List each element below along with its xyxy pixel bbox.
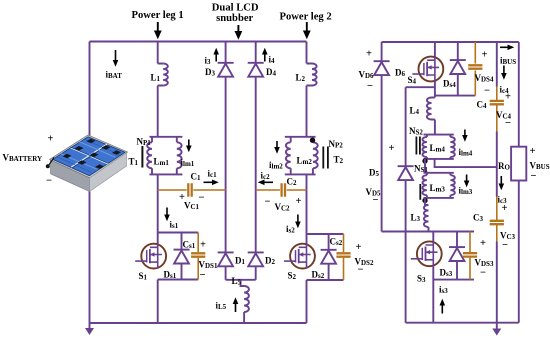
wire S3 cell top rail [382,231,474,233]
winding Lm3 right coil [449,173,451,198]
svg-text:−: − [531,171,537,182]
svg-text:Ds2: Ds2 [312,270,325,281]
transformer T1 bottom bar [150,173,183,175]
diode D5 [398,166,414,180]
transformer T2 Np2 winding [312,137,314,175]
svg-text:Ds4: Ds4 [443,79,456,90]
svg-text:is3: is3 [439,285,448,296]
wire Ds4 anode stub [457,74,459,96]
svg-text:VC1: VC1 [184,201,200,212]
arrow is2 down [295,215,301,229]
transformer T2 polarity dot [310,138,315,143]
transformer T2 top bar [285,136,316,138]
capacitor C2 [282,183,285,196]
svg-text:−: − [46,176,52,187]
svg-text:+: + [296,196,302,207]
capacitor C3 [490,221,504,224]
wire S2 drain stub [306,234,308,245]
svg-text:iBAT: iBAT [106,70,123,81]
wire C3 leads orange [496,197,498,242]
svg-text:Ds3: Ds3 [440,268,453,279]
inductor L5 [244,286,249,312]
svg-text:Lm3: Lm3 [430,183,446,194]
wire top bus right circuit [382,41,519,43]
inductor L3 [424,205,429,227]
svg-text:−: − [373,195,379,206]
wire capacitor Cs2 leads [343,234,345,280]
svg-text:S2: S2 [288,271,297,282]
wire L1 to T1 [157,86,159,137]
arrow ic4 down [501,66,507,80]
diode D6 [374,61,390,75]
svg-text:D6: D6 [395,68,406,79]
arrow i3 up [213,48,219,62]
svg-text:Lm2: Lm2 [297,156,313,167]
svg-text:ilm3: ilm3 [459,186,473,197]
svg-text:C2: C2 [287,177,298,188]
svg-text:VDS3: VDS3 [475,258,494,269]
svg-text:VD6: VD6 [359,70,375,81]
svg-text:+: + [356,242,362,253]
svg-text:Dual LCD: Dual LCD [212,3,259,14]
svg-text:−: − [505,118,511,129]
winding Lm4 top bar [424,134,454,136]
arrow ic1 right [204,180,219,186]
svg-text:L2: L2 [296,73,306,84]
svg-text:−: − [480,268,486,279]
svg-text:L5: L5 [232,276,242,287]
arrow i4 up [262,48,268,62]
wire capacitor VDS3 leads [469,232,471,280]
wire D5 branch [405,87,407,231]
arrow ic2 left [258,180,273,186]
svg-text:Lm1: Lm1 [154,157,170,168]
wire S1 cell bottom rail [158,279,199,281]
wire NS1 tap to output [435,159,497,167]
svg-text:VBUS: VBUS [530,161,550,172]
capacitor C1 [188,183,191,196]
wire capacitor C1 branch [158,189,226,191]
wire C4 leads orange [496,87,498,132]
arrow iBAT down [113,50,119,67]
arrow power leg 1 [154,22,162,39]
svg-text:Lm4: Lm4 [430,143,446,154]
svg-text:D5: D5 [369,168,380,179]
svg-text:ic2: ic2 [261,171,271,182]
svg-text:VDS4: VDS4 [475,73,494,84]
svg-text:+: + [480,238,486,249]
wire S3 cell bottom rail [433,279,474,281]
svg-text:ilm1: ilm1 [181,158,195,169]
wire S1 source to bus [157,280,159,324]
svg-text:D3: D3 [205,67,216,78]
svg-text:C3: C3 [473,213,484,224]
diode D4 [248,63,264,77]
mosfet S1 [135,244,166,269]
wire Ds2 anode stub [328,263,330,280]
wire T2 to C2 node and S2 [306,174,308,234]
svg-text:C1: C1 [191,172,202,183]
arrow ilm3 down [464,175,470,188]
wire bottom bus right circuit [406,322,519,324]
svg-text:−: − [358,265,364,276]
ground arrow right bus bottom [492,323,501,336]
transformer T2 bottom bar [285,173,316,175]
svg-text:−: − [367,81,373,92]
wire capacitor Cs1 leads [197,233,199,280]
svg-text:i3: i3 [205,56,212,67]
svg-text:+: + [505,92,511,103]
wire Ds2 cathode stub [328,234,330,250]
diode D1 [218,252,234,266]
svg-text:RO: RO [498,161,511,172]
svg-text:ilm2: ilm2 [269,160,283,171]
diode D2 [248,252,264,266]
diode Ds1 [174,250,190,264]
arrow ilm1 down [186,140,192,153]
wire Lm4 to Lm3 center [424,159,426,173]
svg-text:+: + [530,146,536,157]
svg-text:S1: S1 [139,271,148,282]
capacitor Cs2 [336,253,350,256]
arrow ilm4 down [462,130,468,142]
svg-text:C4: C4 [477,100,488,111]
mosfet S3 [411,241,442,266]
svg-text:+: + [200,240,206,251]
wire L2 to T2 [306,86,308,137]
winding Lm4 coil [449,135,451,159]
wire D6 branch [381,42,383,232]
svg-text:−: − [484,86,490,97]
svg-text:Power leg 1: Power leg 1 [132,10,184,21]
svg-text:iL5: iL5 [216,301,227,312]
svg-text:−: − [265,197,271,208]
svg-text:Power leg 2: Power leg 2 [280,12,332,23]
svg-text:is1: is1 [170,220,179,231]
wire outer right bus upper [518,42,520,147]
wire S3 drain [432,232,434,242]
wire left edge down to bottom bus [405,232,407,323]
svg-text:Ds1: Ds1 [164,270,177,281]
wire T1 to C1 node and S1 [157,174,159,232]
wire S1 cell top rail [158,232,199,234]
svg-text:+: + [389,143,395,154]
svg-text:VC2: VC2 [275,202,291,213]
wire Ds3 anode stub [456,261,458,280]
wire S4 drain from top [434,42,436,57]
mosfet S4 [412,57,443,82]
wire S2 cell top rail [307,233,344,235]
transformer T2 Lm2 winding [290,137,292,175]
winding Lm4 bottom bar [424,158,454,160]
transformer T1 top bar [150,136,183,138]
wire Ds3 cathode stub [456,232,458,248]
svg-text:is2: is2 [286,224,295,235]
transformer NS1 core bar [419,184,421,200]
wire Ds1 cathode stub [181,233,183,250]
svg-text:T1: T1 [129,157,139,168]
diode D3 [218,63,234,77]
winding NS2 coil [426,135,428,159]
wire capacitor VDS4 leads [474,42,476,96]
arrow ic3 down [499,176,505,190]
transformer T1 Lm1 winding [176,137,178,175]
transformer T2 core bars [323,147,328,169]
svg-text:ic1: ic1 [208,169,218,180]
arrow is1 down [164,208,170,222]
node NS1 dot upper [422,158,427,163]
node NS1 dot lower [422,198,427,203]
winding Lm3 top bar [424,172,454,174]
wire link to L5 [241,280,245,286]
svg-text:S4: S4 [408,75,417,86]
diode Ds3 [449,247,465,261]
wire S2 source to bus [306,280,308,323]
svg-text:−: − [199,193,205,204]
svg-text:VDS1: VDS1 [199,260,218,271]
svg-text:D2: D2 [265,256,276,267]
arrow power leg 2 [303,22,311,39]
transformer T1 core bar [141,146,143,168]
wire S3 source to bus [432,266,434,323]
winding Lm3 left coil [426,173,428,198]
inductor L4 [432,98,435,120]
wire power leg 2 drop [306,42,308,64]
svg-text:snubber: snubber [216,13,253,24]
wire D1-D2 bottom link [226,279,256,281]
wire Ds4 cathode stub [457,42,459,60]
svg-text:D4: D4 [266,67,277,78]
transformer T1 primary Np1 winding [151,137,153,175]
capacitor C4 [490,101,504,104]
arrow iL5 up [233,297,239,312]
wire S1 drain stub [157,233,159,245]
arrow is3 up [440,299,446,314]
diode Ds4 [450,60,466,74]
inductor L2 [307,64,313,86]
svg-text:T2: T2 [334,155,344,166]
wire power leg 1 drop [157,42,159,64]
svg-text:−: − [502,240,508,251]
capacitor VDS4 [468,65,482,68]
arrow iBUS right [500,45,514,51]
winding Lm3 bottom bar [424,197,454,199]
wire left battery bus [89,42,91,324]
arrow ilm2 down [274,141,280,154]
wire top bus leg1-leg2 [90,41,307,43]
wire L4 to Lm4 [434,120,436,135]
svg-text:+: + [48,134,54,145]
wire Ds1 anode stub [181,263,183,279]
resistor Ro box [511,147,526,181]
wire D1 anode to link [225,266,227,280]
wire S2 cell bottom rail [307,279,344,281]
capacitor VDS3 [463,253,477,256]
ground arrow left bus bottom [85,323,94,335]
svg-text:+: + [482,50,488,61]
svg-text:−: − [200,270,206,281]
svg-text:Cs2: Cs2 [330,237,343,248]
svg-text:D1: D1 [235,256,246,267]
wire bottom bus left circuit [90,322,307,324]
svg-text:NS1: NS1 [414,164,428,175]
wire S4 gate-side link to D5 branch [406,86,435,88]
svg-text:L1: L1 [151,73,161,84]
svg-text:Cs1: Cs1 [183,240,196,251]
mosfet S2 [284,244,315,269]
svg-text:NP2: NP2 [329,139,344,150]
transformer NS2 core bars [416,137,420,155]
battery pack image [46,135,128,192]
svg-text:L4: L4 [410,106,420,117]
svg-text:ilm4: ilm4 [459,147,473,158]
svg-text:+: + [502,203,508,214]
wire snubber D3 branch [225,42,227,253]
wire snubber D4 branch [255,42,257,253]
svg-text:L3: L3 [411,213,421,224]
svg-text:NP1: NP1 [137,137,152,148]
svg-text:S3: S3 [417,274,426,285]
diode Ds2 [321,250,337,264]
arrow dual LCD snubber [235,25,243,40]
svg-text:VBATTERY: VBATTERY [3,153,43,164]
capacitor Cs1 [191,253,205,256]
wire D2 anode to link [255,266,257,280]
wire S4 source junction [434,81,436,97]
wire Lm3 to L3 [425,198,429,205]
svg-text:iBUS: iBUS [500,56,516,67]
inductor L1 [158,64,164,86]
wire S4 cell bottom rail [435,95,475,97]
battery probe lead [48,158,54,166]
svg-text:NS2: NS2 [409,126,423,137]
wire outer right bus lower [518,181,520,323]
svg-text:+: + [366,49,372,60]
wire capacitor C2 branch [256,189,307,191]
svg-text:i4: i4 [269,55,276,66]
wire inner bus purple segments [496,42,498,323]
